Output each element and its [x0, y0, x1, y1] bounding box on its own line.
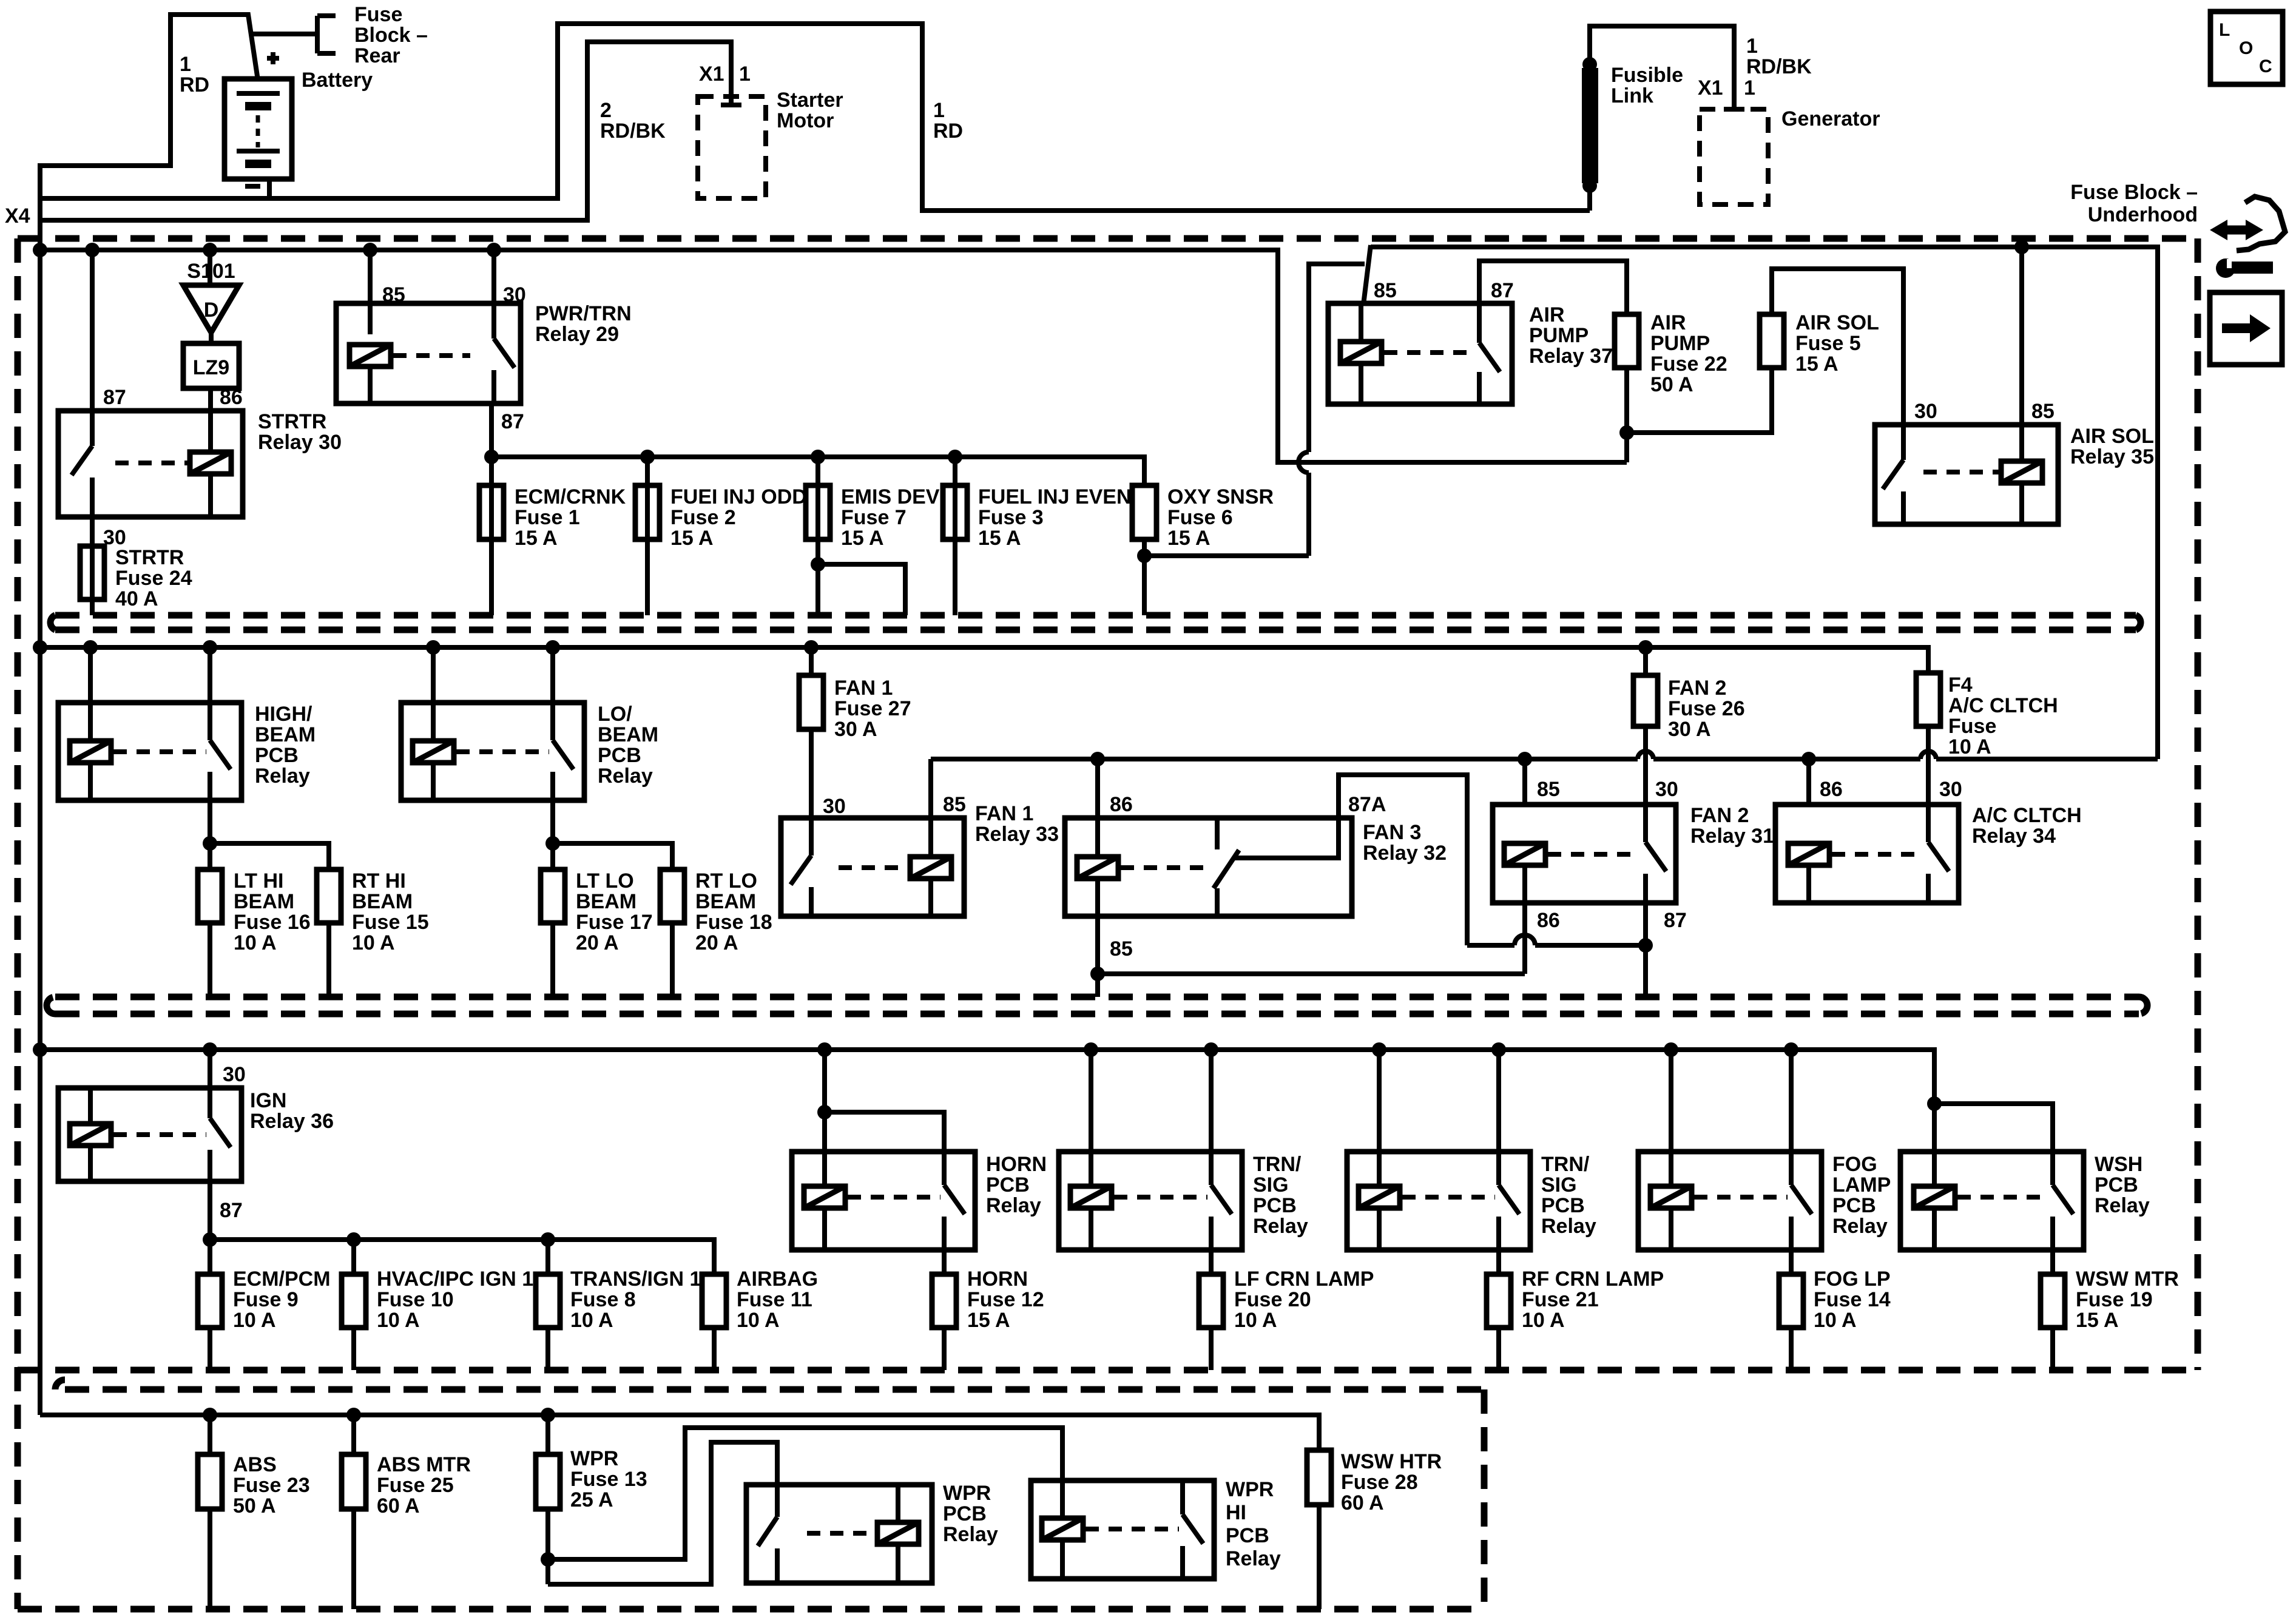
- fuse F8 TRANS/IGN 1 Fuse 8 10A: [536, 1274, 560, 1328]
- svg-text:O: O: [2239, 38, 2253, 58]
- svg-text:40 A: 40 A: [115, 587, 158, 610]
- wire TRN/SIG relay to fuse 21: [1496, 1250, 1501, 1274]
- junction dots on row 4 bus: [203, 1408, 217, 1422]
- svg-text:Relay: Relay: [1226, 1547, 1281, 1570]
- svg-text:X4: X4: [5, 204, 30, 228]
- svg-text:Fuse 17: Fuse 17: [576, 911, 653, 934]
- svg-text:BEAM: BEAM: [234, 890, 294, 913]
- svg-text:PUMP: PUMP: [1650, 332, 1710, 355]
- Fuse Block - Underhood dashed border right: [2195, 238, 2201, 1370]
- wire HORN relay to fuse 12: [942, 1250, 947, 1274]
- svg-text:1: 1: [1746, 35, 1758, 58]
- svg-text:Relay: Relay: [986, 1194, 1041, 1217]
- svg-text:30 A: 30 A: [834, 718, 877, 741]
- battery: [225, 79, 292, 179]
- svg-text:Relay 36: Relay 36: [250, 1110, 334, 1133]
- svg-text:HI: HI: [1226, 1501, 1246, 1524]
- svg-text:Fuse 8: Fuse 8: [570, 1288, 636, 1311]
- relay WPR HI PCB Relay: [1031, 1480, 1214, 1579]
- fuse F4 A/C CLTCH Fuse 10A: [1916, 673, 1940, 726]
- svg-text:TRN/: TRN/: [1541, 1153, 1590, 1176]
- svg-text:RF CRN LAMP: RF CRN LAMP: [1522, 1268, 1664, 1291]
- relay R35 AIR SOL Relay 35: [1875, 425, 2058, 524]
- svg-text:Relay 32: Relay 32: [1363, 842, 1447, 865]
- svg-text:Relay 30: Relay 30: [258, 431, 342, 454]
- wire relay 32 pin 85 to connector: [1095, 916, 1100, 997]
- svg-text:Fuse 25: Fuse 25: [377, 1474, 454, 1497]
- svg-text:Relay: Relay: [2095, 1194, 2150, 1217]
- fuse F23 ABS Fuse 23 50A: [208, 1415, 212, 1454]
- svg-text:STRTR: STRTR: [258, 410, 326, 433]
- svg-text:Relay: Relay: [1541, 1215, 1596, 1238]
- svg-text:15 A: 15 A: [1167, 527, 1210, 550]
- svg-text:PWR/TRN: PWR/TRN: [535, 302, 632, 325]
- svg-text:A/C CLTCH: A/C CLTCH: [1948, 694, 2058, 717]
- svg-text:Relay 29: Relay 29: [535, 323, 619, 346]
- svg-text:Block –: Block –: [354, 24, 428, 47]
- svg-text:RD/BK: RD/BK: [1746, 55, 1812, 78]
- svg-text:Fuse 16: Fuse 16: [234, 911, 311, 934]
- battery negative wire to starter feed line: [267, 179, 272, 198]
- svg-text:ECM/PCM: ECM/PCM: [233, 1268, 331, 1291]
- svg-text:BEAM: BEAM: [576, 890, 636, 913]
- legend LOC box: [2210, 12, 2283, 84]
- connector capsule between row 1 and row 2: [55, 615, 2136, 630]
- svg-text:Fuse Block –: Fuse Block –: [2070, 181, 2198, 204]
- fuse F19 WSW MTR Fuse 19 15A: [2041, 1274, 2065, 1328]
- svg-text:STRTR: STRTR: [115, 546, 184, 569]
- svg-text:30 A: 30 A: [1668, 718, 1711, 741]
- svg-text:FOG: FOG: [1832, 1153, 1877, 1176]
- fuse F14 FOG LP Fuse 14 10A: [1779, 1274, 1803, 1328]
- ground splice S101 triangle: [183, 285, 239, 333]
- svg-text:PCB: PCB: [598, 744, 641, 767]
- relay FOG LAMP PCB Relay: [1638, 1152, 1822, 1250]
- svg-text:PCB: PCB: [986, 1173, 1030, 1197]
- svg-text:A/C CLTCH: A/C CLTCH: [1972, 804, 2082, 827]
- svg-text:60 A: 60 A: [377, 1494, 420, 1517]
- svg-text:RD: RD: [933, 120, 963, 143]
- svg-text:10 A: 10 A: [570, 1309, 613, 1332]
- fusible link: [1590, 26, 1734, 211]
- svg-text:HVAC/IPC IGN 1: HVAC/IPC IGN 1: [377, 1268, 533, 1291]
- svg-text:30: 30: [503, 283, 526, 306]
- svg-text:WSW HTR: WSW HTR: [1341, 1450, 1442, 1473]
- svg-text:20 A: 20 A: [576, 931, 619, 954]
- wire battery minus / starter motor loop: [40, 24, 1590, 211]
- fuse F26 FAN 2 Fuse 26 30A: [1643, 647, 1648, 675]
- svg-text:15 A: 15 A: [841, 527, 884, 550]
- svg-text:Fuse 1: Fuse 1: [515, 506, 580, 529]
- wire IGN relay output bus: [208, 1181, 212, 1274]
- row 4 dashed box top: [55, 1380, 1484, 1389]
- svg-text:85: 85: [1110, 937, 1133, 960]
- junction dots on row 3 bus: [33, 1042, 47, 1057]
- fuse F24 STRTR Fuse 24 40A: [80, 546, 104, 599]
- svg-text:10 A: 10 A: [352, 931, 395, 954]
- svg-text:ABS: ABS: [233, 1453, 277, 1476]
- relay R34 A/C CLTCH Relay 34: [1775, 805, 1959, 903]
- fuse F13 WPR Fuse 13 25A: [545, 1415, 550, 1454]
- svg-text:Motor: Motor: [777, 109, 834, 132]
- Fuse Block - Underhood dashed border left: [15, 238, 21, 1609]
- svg-text:OXY SNSR: OXY SNSR: [1167, 485, 1274, 508]
- svg-text:FAN 2: FAN 2: [1690, 804, 1749, 827]
- svg-text:X1: X1: [699, 62, 724, 86]
- svg-text:WSW MTR: WSW MTR: [2076, 1268, 2179, 1291]
- fuse F11 AIRBAG Fuse 11 10A: [702, 1274, 726, 1328]
- wire relay 37 pin 87 to fuse 22: [1479, 261, 1627, 314]
- svg-text:PUMP: PUMP: [1529, 324, 1589, 347]
- svg-text:1: 1: [180, 53, 191, 76]
- svg-text:Relay 35: Relay 35: [2070, 445, 2154, 468]
- svg-text:Fuse 28: Fuse 28: [1341, 1471, 1418, 1494]
- fuse F9 ECM/PCM Fuse 9 10A: [198, 1274, 222, 1328]
- svg-text:1: 1: [933, 99, 945, 122]
- svg-text:AIR SOL: AIR SOL: [1795, 311, 1879, 334]
- engine code box LZ9: [183, 343, 239, 388]
- starter motor connector box: [698, 96, 766, 198]
- svg-text:Fuse 24: Fuse 24: [115, 567, 192, 590]
- svg-text:87: 87: [501, 410, 524, 433]
- svg-text:85: 85: [943, 793, 966, 816]
- connector capsule between row 2 and row 3: [55, 997, 2139, 1014]
- junction dots on row 1 bus: [33, 243, 47, 257]
- svg-text:10 A: 10 A: [233, 1309, 276, 1332]
- svg-text:AIR: AIR: [1529, 303, 1565, 326]
- svg-text:Fuse 12: Fuse 12: [967, 1288, 1044, 1311]
- bus row 4: [40, 1415, 1319, 1450]
- coil interconnect wire row 2: [928, 759, 933, 818]
- svg-text:Relay 33: Relay 33: [975, 823, 1059, 846]
- svg-text:85: 85: [1537, 778, 1560, 801]
- svg-text:Underhood: Underhood: [2088, 203, 2198, 226]
- svg-text:RD/BK: RD/BK: [600, 120, 666, 143]
- svg-text:WPR: WPR: [943, 1482, 991, 1505]
- svg-text:X1: X1: [1698, 76, 1723, 100]
- fuse F6 OXY SNSR Fuse 6 15A: [1132, 485, 1156, 539]
- svg-text:Fuse: Fuse: [1948, 715, 1996, 738]
- wire relay 31 pin 87 to connector: [1643, 903, 1648, 997]
- svg-text:LO/: LO/: [598, 703, 632, 726]
- svg-text:BEAM: BEAM: [255, 723, 316, 746]
- wire fuse 6 to air pump relay coil: [1144, 553, 1309, 558]
- wire fuse 13 to WPR HI relay coil: [548, 1428, 1062, 1559]
- wire fuse 13 to WPR relay switch: [548, 1442, 777, 1584]
- wire relay 30 pin 30 to fuse 24: [90, 517, 95, 615]
- relay HIGH/BEAM PCB Relay: [58, 703, 241, 800]
- svg-text:PCB: PCB: [1541, 1194, 1585, 1217]
- svg-text:10 A: 10 A: [1234, 1309, 1277, 1332]
- junction dots on interconnect: [1090, 752, 1105, 766]
- svg-text:Fuse 18: Fuse 18: [695, 911, 772, 934]
- svg-text:ECM/CRNK: ECM/CRNK: [515, 485, 626, 508]
- svg-text:Fuse 7: Fuse 7: [841, 506, 907, 529]
- battery plus terminal: [267, 52, 279, 64]
- wire 1 RD from battery positive to fuse block left bus: [40, 15, 258, 250]
- svg-text:Fuse 6: Fuse 6: [1167, 506, 1233, 529]
- svg-text:TRN/: TRN/: [1253, 1153, 1302, 1176]
- relay R32 FAN 3 Relay 32: [1065, 818, 1352, 916]
- wire TRN/SIG relay to fuse 20: [1209, 1250, 1214, 1274]
- svg-text:LZ9: LZ9: [193, 356, 229, 379]
- wire LO/BEAM relay output to fuses 17 and 18: [550, 800, 555, 869]
- svg-text:Fuse 19: Fuse 19: [2076, 1288, 2153, 1311]
- relay R31 FAN 2 Relay 31: [1493, 805, 1676, 903]
- svg-text:LT HI: LT HI: [234, 869, 283, 893]
- svg-text:30: 30: [223, 1063, 246, 1086]
- wire WSH relay to fuse 19: [2050, 1250, 2055, 1274]
- relay HORN PCB Relay: [792, 1152, 975, 1250]
- fuse F15 RT HI BEAM Fuse 15 10A: [317, 869, 341, 923]
- svg-text:15 A: 15 A: [2076, 1309, 2119, 1332]
- svg-text:50 A: 50 A: [1650, 373, 1693, 396]
- svg-text:60 A: 60 A: [1341, 1491, 1384, 1514]
- svg-text:FUEL INJ EVEN: FUEL INJ EVEN: [978, 485, 1132, 508]
- svg-text:Fuse 11: Fuse 11: [737, 1288, 812, 1311]
- svg-text:D: D: [204, 299, 219, 322]
- fuse F27 FAN 1 Fuse 27 30A: [809, 647, 814, 675]
- battery minus terminal: [245, 184, 260, 189]
- svg-text:HORN: HORN: [986, 1153, 1047, 1176]
- row 4 dashed box right: [1481, 1389, 1488, 1609]
- svg-text:15 A: 15 A: [670, 527, 714, 550]
- svg-text:Fuse 22: Fuse 22: [1650, 353, 1727, 376]
- svg-text:Relay 37: Relay 37: [1529, 345, 1613, 368]
- svg-text:30: 30: [1655, 778, 1678, 801]
- wire relay 31 pin 86 to relay 32 pin 85: [1098, 971, 1525, 976]
- svg-text:15 A: 15 A: [978, 527, 1021, 550]
- fuse F10 HVAC/IPC IGN 1 Fuse 10 10A: [342, 1274, 366, 1328]
- svg-text:Fuse 9: Fuse 9: [233, 1288, 299, 1311]
- svg-text:Relay 34: Relay 34: [1972, 825, 2056, 848]
- svg-text:Relay: Relay: [1253, 1215, 1308, 1238]
- svg-text:85: 85: [382, 283, 405, 306]
- wire relay 35 pin 85 from bus: [2019, 247, 2024, 425]
- junction dot below fuse 6: [1137, 549, 1152, 563]
- svg-text:AIR: AIR: [1650, 311, 1686, 334]
- fuse F22 AIR PUMP Fuse 22 50A: [1615, 314, 1639, 368]
- svg-text:1: 1: [739, 62, 751, 86]
- svg-text:S101: S101: [187, 260, 235, 283]
- svg-text:Fuse 23: Fuse 23: [233, 1474, 310, 1497]
- generator connector box: [1724, 107, 1744, 112]
- svg-text:RD: RD: [180, 73, 209, 96]
- svg-text:1: 1: [1744, 76, 1755, 100]
- svg-text:Fuse 20: Fuse 20: [1234, 1288, 1311, 1311]
- fuse F25 ABS MTR Fuse 25 60A: [351, 1415, 356, 1454]
- svg-text:10 A: 10 A: [1948, 735, 1991, 758]
- svg-text:Fuse 13: Fuse 13: [570, 1468, 647, 1491]
- svg-text:BEAM: BEAM: [598, 723, 658, 746]
- svg-text:Fusible: Fusible: [1611, 64, 1683, 87]
- fuse F20 LF CRN LAMP Fuse 20 10A: [1199, 1274, 1223, 1328]
- svg-text:10 A: 10 A: [234, 931, 277, 954]
- svg-text:10 A: 10 A: [1814, 1309, 1857, 1332]
- svg-text:Fuse 26: Fuse 26: [1668, 697, 1745, 720]
- svg-text:TRANS/IGN 1: TRANS/IGN 1: [570, 1268, 701, 1291]
- svg-text:HIGH/: HIGH/: [255, 703, 312, 726]
- svg-text:86: 86: [220, 386, 243, 409]
- bus row 1 from battery: [40, 250, 1627, 462]
- svg-text:FUEI INJ ODD: FUEI INJ ODD: [670, 485, 807, 508]
- svg-text:87: 87: [103, 386, 126, 409]
- svg-text:PCB: PCB: [943, 1502, 987, 1525]
- svg-text:15 A: 15 A: [515, 527, 558, 550]
- svg-text:30: 30: [1914, 400, 1937, 423]
- svg-text:LAMP: LAMP: [1832, 1173, 1891, 1197]
- svg-text:SIG: SIG: [1541, 1173, 1577, 1197]
- svg-text:FAN 2: FAN 2: [1668, 677, 1726, 700]
- svg-text:Fuse 5: Fuse 5: [1795, 332, 1861, 355]
- fuse F12 HORN Fuse 12 15A: [932, 1274, 956, 1328]
- junction dots on 87 rail: [484, 450, 499, 464]
- svg-text:Generator: Generator: [1781, 107, 1880, 130]
- svg-text:HORN: HORN: [967, 1268, 1028, 1291]
- wire to Fuse Block - Rear connector: [252, 16, 336, 53]
- svg-text:RT LO: RT LO: [695, 869, 757, 893]
- fuse F16 LT HI BEAM Fuse 16 10A: [198, 869, 222, 923]
- svg-text:EMIS DEV: EMIS DEV: [841, 485, 940, 508]
- navigation icon arrows and wrench: [2218, 226, 2255, 235]
- svg-text:85: 85: [2031, 400, 2055, 423]
- wire loop below fuse 7: [818, 564, 905, 615]
- svg-text:Fuse 10: Fuse 10: [377, 1288, 454, 1311]
- svg-text:86: 86: [1110, 793, 1133, 816]
- svg-text:PCB: PCB: [2095, 1173, 2138, 1197]
- wire S101 to LZ9: [209, 333, 214, 343]
- fuse F18 RT LO BEAM Fuse 18 20A: [660, 869, 684, 923]
- svg-text:BEAM: BEAM: [695, 890, 756, 913]
- svg-text:Fuse 21: Fuse 21: [1522, 1288, 1599, 1311]
- svg-text:Fuse 3: Fuse 3: [978, 506, 1044, 529]
- fuse F2 FUEI INJ ODD Fuse 2 15A: [645, 457, 650, 615]
- svg-text:10 A: 10 A: [377, 1309, 420, 1332]
- relay LO/BEAM PCB Relay: [401, 703, 584, 800]
- svg-text:87: 87: [220, 1199, 243, 1222]
- svg-text:F4: F4: [1948, 673, 1973, 697]
- svg-text:Relay: Relay: [1832, 1215, 1888, 1238]
- svg-text:AIRBAG: AIRBAG: [737, 1268, 818, 1291]
- svg-text:WSH: WSH: [2095, 1153, 2142, 1176]
- svg-text:Fuse 15: Fuse 15: [352, 911, 429, 934]
- svg-text:L: L: [2219, 20, 2230, 40]
- relay R33 FAN 1 Relay 33: [781, 818, 964, 916]
- svg-text:PCB: PCB: [255, 744, 299, 767]
- fuse F28 WSW HTR Fuse 28 60A: [1307, 1450, 1331, 1505]
- fuse F5 AIR SOL Fuse 5 15A: [1760, 314, 1784, 368]
- relay R36 IGN Relay 36: [58, 1088, 241, 1181]
- wire relay 32 87A to relay 31 87: [1339, 775, 1467, 945]
- svg-text:Battery: Battery: [302, 69, 373, 92]
- dashed border between row 3 and row 4: [18, 1367, 2198, 1374]
- svg-text:Fuse: Fuse: [354, 3, 402, 26]
- svg-text:Relay: Relay: [943, 1523, 998, 1546]
- svg-text:2: 2: [600, 99, 612, 122]
- svg-text:FAN 1: FAN 1: [834, 677, 893, 700]
- relay WPR PCB Relay: [746, 1485, 932, 1583]
- svg-text:C: C: [2259, 56, 2272, 76]
- svg-text:IGN: IGN: [250, 1089, 286, 1112]
- svg-text:SIG: SIG: [1253, 1173, 1289, 1197]
- relay R29 PWR/TRN Relay 29: [336, 303, 521, 403]
- svg-text:Fuse 27: Fuse 27: [834, 697, 911, 720]
- svg-text:FAN 3: FAN 3: [1363, 821, 1421, 844]
- svg-text:Relay: Relay: [255, 765, 310, 788]
- wire below fuse 22: [1624, 368, 1629, 462]
- svg-text:FAN 1: FAN 1: [975, 802, 1033, 825]
- svg-text:87A: 87A: [1348, 793, 1386, 816]
- svg-text:WPR: WPR: [570, 1447, 618, 1470]
- svg-text:15 A: 15 A: [1795, 353, 1838, 376]
- svg-text:PCB: PCB: [1226, 1524, 1269, 1547]
- svg-text:AIR SOL: AIR SOL: [2070, 425, 2154, 448]
- svg-text:LT LO: LT LO: [576, 869, 634, 893]
- fuse F3 FUEL INJ EVEN Fuse 3 15A: [953, 457, 957, 615]
- svg-text:Link: Link: [1611, 84, 1653, 107]
- wire FOG LAMP relay to fuse 14: [1789, 1250, 1794, 1274]
- svg-text:ABS MTR: ABS MTR: [377, 1453, 471, 1476]
- svg-text:87: 87: [1664, 909, 1687, 932]
- svg-text:Fuse 14: Fuse 14: [1814, 1288, 1891, 1311]
- wire LZ9 to relay 30 pin 86: [208, 388, 213, 411]
- relay R30 STRTR Relay 30: [58, 411, 243, 517]
- svg-text:15 A: 15 A: [967, 1309, 1010, 1332]
- svg-text:Starter: Starter: [777, 89, 843, 112]
- junction dots on row 2 bus: [33, 640, 47, 655]
- svg-text:FOG LP: FOG LP: [1814, 1268, 1891, 1291]
- relay R37 AIR PUMP Relay 37: [1328, 303, 1512, 404]
- bus row 2: [40, 647, 1928, 673]
- wire 2 RD/BK to starter motor: [40, 42, 741, 220]
- Fuse Block - Underhood dashed border top: [18, 235, 2198, 242]
- svg-text:Relay 31: Relay 31: [1690, 825, 1774, 848]
- svg-text:86: 86: [1537, 909, 1560, 932]
- wire fuse 22 to fuse 5 bottom: [1627, 368, 1772, 433]
- bus row 3: [40, 1050, 1934, 1186]
- svg-text:RT HI: RT HI: [352, 869, 406, 893]
- wire 85 interconnect to AIR SOL relay: [1363, 245, 2158, 759]
- next section arrow icon: [2210, 292, 2282, 365]
- svg-text:PCB: PCB: [1253, 1194, 1297, 1217]
- relay TRN/SIG PCB Relay left: [1059, 1152, 1242, 1250]
- fuse F21 RF CRN LAMP Fuse 21 10A: [1487, 1274, 1511, 1328]
- svg-text:WPR: WPR: [1226, 1478, 1274, 1501]
- svg-text:87: 87: [1491, 279, 1514, 302]
- svg-text:85: 85: [1374, 279, 1397, 302]
- svg-text:Fuse 2: Fuse 2: [670, 506, 736, 529]
- svg-text:10 A: 10 A: [737, 1309, 780, 1332]
- svg-text:30: 30: [823, 795, 846, 818]
- svg-text:20 A: 20 A: [695, 931, 738, 954]
- relay 32 87A contact bar: [1234, 818, 1339, 858]
- svg-text:50 A: 50 A: [233, 1494, 276, 1517]
- svg-text:30: 30: [1939, 778, 1962, 801]
- left bus vertical: [38, 250, 42, 1415]
- fuse F17 LT LO BEAM Fuse 17 20A: [541, 869, 565, 923]
- svg-text:Rear: Rear: [354, 44, 400, 67]
- svg-text:Relay: Relay: [598, 765, 653, 788]
- relay TRN/SIG PCB Relay right: [1347, 1152, 1530, 1250]
- svg-text:LF CRN LAMP: LF CRN LAMP: [1234, 1268, 1374, 1291]
- svg-text:10 A: 10 A: [1522, 1309, 1565, 1332]
- svg-text:86: 86: [1820, 778, 1843, 801]
- svg-text:PCB: PCB: [1832, 1194, 1876, 1217]
- fuse F1 ECM/CRNK Fuse 1 15A: [479, 485, 504, 539]
- wire relay 29 pin 87 rail: [489, 403, 494, 615]
- relay WSH PCB Relay: [1900, 1152, 2084, 1250]
- svg-text:25 A: 25 A: [570, 1488, 613, 1511]
